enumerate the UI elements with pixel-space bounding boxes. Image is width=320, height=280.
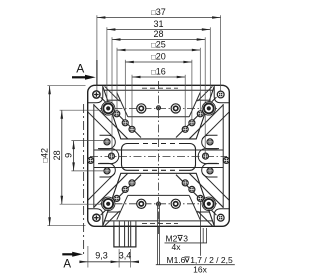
svg-text:□16: □16 xyxy=(151,66,166,76)
svg-text:A: A xyxy=(63,258,71,270)
svg-text:28: 28 xyxy=(52,150,62,160)
svg-text:4x: 4x xyxy=(172,242,182,252)
svg-text:□37: □37 xyxy=(151,7,166,17)
svg-text:3,4: 3,4 xyxy=(119,251,132,261)
svg-text:□42: □42 xyxy=(40,148,50,163)
svg-text:M1.6: M1.6 xyxy=(167,255,186,265)
svg-text:3: 3 xyxy=(183,233,188,243)
svg-text:16x: 16x xyxy=(193,264,207,274)
svg-text:A: A xyxy=(76,62,84,76)
svg-text:28: 28 xyxy=(153,29,163,39)
svg-text:□25: □25 xyxy=(151,39,166,49)
svg-text:31: 31 xyxy=(153,19,163,29)
svg-text:9: 9 xyxy=(64,153,74,158)
svg-text:9,3: 9,3 xyxy=(95,251,108,261)
svg-text:□20: □20 xyxy=(151,51,166,61)
